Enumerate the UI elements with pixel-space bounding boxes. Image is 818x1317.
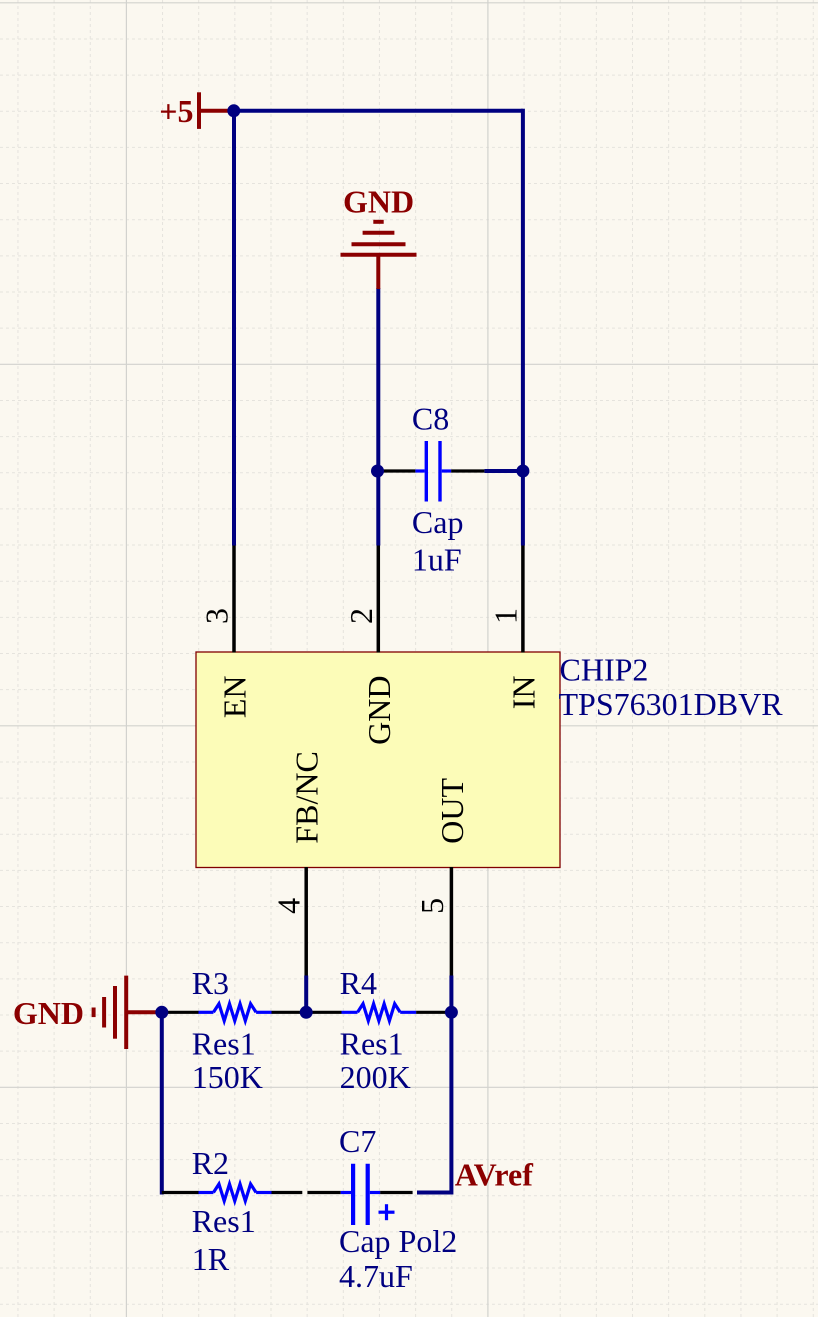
wire corner to R2 left pin [162,1191,199,1194]
svg-text:AVref: AVref [455,1156,534,1192]
wire pin 5 down to AVref rail [449,976,453,1195]
wire C7 left pin [307,1191,340,1194]
wire +5 top rail horizontal [234,109,523,113]
junction [300,1006,313,1019]
svg-text:200K: 200K [340,1059,411,1095]
svg-text:EN: EN [217,676,253,719]
svg-text:150K: 150K [192,1059,263,1095]
svg-text:IN: IN [505,676,541,710]
wire C8 right pin [451,469,484,472]
svg-text:Res1: Res1 [192,1203,256,1239]
power port +5 [159,92,234,129]
wire R3 right pin to node to R4 left pin [272,1011,342,1014]
junction [516,465,529,478]
pin 1 [521,546,525,653]
wire pin 4 to node FB [304,976,308,1013]
svg-text:FB/NC: FB/NC [289,751,325,843]
wire GND node down to R2 row [160,1012,164,1194]
resistor R3 [199,1004,272,1021]
pin 5 [450,867,454,976]
svg-text:Cap Pol2: Cap Pol2 [339,1223,457,1259]
junction [155,1006,168,1019]
svg-text:GND: GND [13,995,84,1031]
svg-text:Res1: Res1 [340,1026,404,1062]
wire AVref corner segment [417,1191,451,1195]
svg-text:GND: GND [361,676,397,745]
resistor R4 [342,1004,417,1021]
svg-text:TPS76301DBVR: TPS76301DBVR [559,686,784,722]
pin 2 [377,546,381,653]
svg-text:3: 3 [199,608,235,624]
svg-text:OUT: OUT [434,777,470,843]
svg-text:C8: C8 [412,401,449,437]
resistor R2 [199,1184,272,1201]
svg-text:1R: 1R [192,1241,230,1277]
wire C8 right pin to node [484,469,523,473]
pin 4 [304,867,308,976]
svg-text:5: 5 [414,898,450,914]
wire R4 right pin to node [416,1011,451,1014]
svg-text:CHIP2: CHIP2 [560,651,649,687]
svg-text:Res1: Res1 [192,1026,256,1062]
svg-text:R4: R4 [340,965,377,1001]
svg-text:R2: R2 [192,1145,229,1181]
svg-text:+5: +5 [159,93,193,129]
svg-text:Cap: Cap [412,504,464,540]
svg-text:GND: GND [343,183,414,219]
wire GND stem down to C8/pin 2 [376,288,380,546]
svg-text:C7: C7 [339,1123,376,1159]
svg-text:1: 1 [487,608,523,624]
capacitor C8 [415,441,451,502]
svg-text:4: 4 [271,898,307,914]
power port GND (left earth) [13,976,162,1049]
junction [445,1006,458,1019]
junction [227,104,240,117]
pin 3 [232,546,236,653]
wire +5 rail down to pin 3 [232,109,236,546]
wire C7 right pin [380,1191,413,1194]
power port GND (top earth) [341,183,417,289]
IC CHIP2 TPS76301DBVR body [196,652,560,868]
wire R2 right pin [272,1191,303,1194]
svg-text:2: 2 [343,608,379,624]
junction [371,465,384,478]
svg-text:4.7uF: 4.7uF [339,1258,413,1294]
wire GND node to R3 left pin [162,1011,199,1014]
capacitor C7 [341,1164,395,1225]
wire C8 left pin [377,469,415,472]
svg-text:1uF: 1uF [412,541,462,577]
wire +5 rail down to C8/pin 1 [521,109,525,546]
svg-text:R3: R3 [192,965,229,1001]
